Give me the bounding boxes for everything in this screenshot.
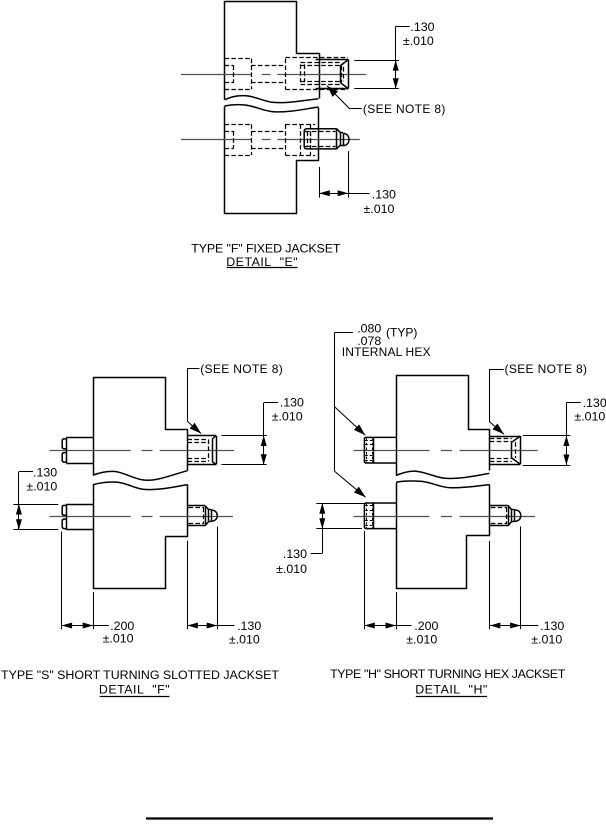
svg-text:(SEE NOTE 8): (SEE NOTE 8) (363, 102, 446, 116)
svg-text:TYPE "F" FIXED JACKSET: TYPE "F" FIXED JACKSET (191, 242, 341, 256)
svg-text:.130: .130 (410, 20, 434, 34)
svg-text:(SEE NOTE 8): (SEE NOTE 8) (200, 362, 283, 376)
svg-text:.200: .200 (414, 619, 438, 633)
svg-text:±.010: ±.010 (26, 479, 57, 493)
svg-text:DETAIL "E": DETAIL "E" (226, 255, 298, 269)
svg-text:±.010: ±.010 (272, 410, 303, 424)
svg-text:±.010: ±.010 (229, 632, 260, 646)
svg-text:DETAIL "F": DETAIL "F" (99, 683, 170, 697)
svg-text:INTERNAL HEX: INTERNAL HEX (342, 345, 431, 359)
svg-text:.130: .130 (283, 547, 307, 561)
svg-text:±.010: ±.010 (103, 631, 134, 645)
svg-text:.130: .130 (33, 466, 57, 480)
svg-text:DETAIL "H": DETAIL "H" (415, 683, 488, 697)
svg-text:(SEE NOTE 8): (SEE NOTE 8) (505, 362, 588, 376)
svg-text:.130: .130 (237, 619, 261, 633)
svg-text:TYPE "S" SHORT TURNING SLOTTED: TYPE "S" SHORT TURNING SLOTTED JACKSET (1, 668, 279, 682)
svg-text:±.010: ±.010 (403, 34, 434, 48)
svg-text:TYPE "H" SHORT TURNING HEX JAC: TYPE "H" SHORT TURNING HEX JACKSET (330, 667, 566, 681)
svg-text:.130: .130 (280, 396, 304, 410)
svg-text:.130: .130 (583, 396, 606, 410)
svg-text:±.010: ±.010 (531, 633, 562, 647)
svg-text:.130: .130 (372, 188, 396, 202)
svg-text:±.010: ±.010 (276, 562, 307, 576)
svg-text:±.010: ±.010 (406, 633, 437, 647)
svg-text:(TYP): (TYP) (386, 326, 417, 340)
svg-text:±.010: ±.010 (364, 202, 395, 216)
svg-text:±.010: ±.010 (574, 409, 605, 423)
svg-text:.130: .130 (540, 619, 564, 633)
